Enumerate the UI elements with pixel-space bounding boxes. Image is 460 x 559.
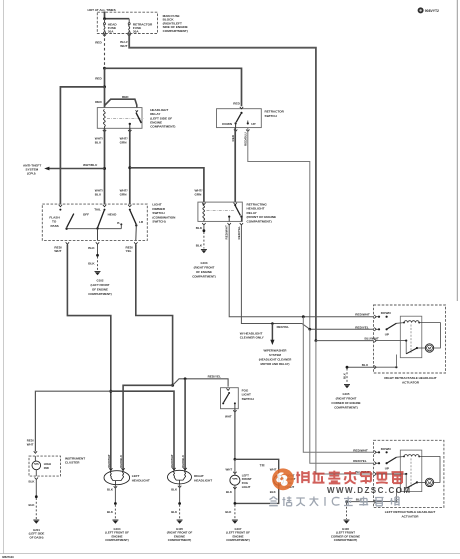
fog switch blade <box>224 394 229 403</box>
headlight relay coil <box>103 110 105 129</box>
connector chevron light switch O2 <box>96 242 99 244</box>
svg-text:RED/YEL: RED/YEL <box>355 325 369 329</box>
motor M right actuator <box>425 344 433 352</box>
label G105 (RIGHT FRONT CORNER OF ENGINE COMPARTMENT) <box>331 392 360 410</box>
connector chevron head fuse out <box>103 34 106 36</box>
label G105 (RIGHT FRONT OF ENGINE COMPARTMENT) headlight <box>167 527 193 542</box>
svg-text:SWITCH: SWITCH <box>265 114 278 118</box>
label LEFT HEADLIGHT <box>132 474 150 482</box>
svg-text:ACTUATOR: ACTUATOR <box>402 380 420 384</box>
svg-text:G102: G102 <box>96 278 103 282</box>
junction bus at head fuse <box>103 17 106 20</box>
label INSTRUMENT CLUSTER <box>65 457 85 465</box>
svg-text:WHT/BLU: WHT/BLU <box>83 163 98 167</box>
wire light switch common bar <box>67 228 122 230</box>
svg-text:WHT: WHT <box>27 442 34 446</box>
label G102 (LEFT FRONT OF ENGINE COMPARTMENT) <box>88 278 112 296</box>
headlight relay switch blade <box>136 113 141 123</box>
connector chevron left fog light in <box>233 472 236 474</box>
wire RED branch left down to light switch <box>60 87 104 204</box>
left retractable headlight actuator dashed box <box>374 440 444 507</box>
left actuator link dashed <box>410 458 412 487</box>
svg-text:WHT: WHT <box>226 467 233 471</box>
junction cleaner tap <box>271 322 274 325</box>
svg-text:G103: G103 <box>200 261 207 265</box>
right actuator UP contact and blade <box>376 323 396 330</box>
label LIGHT DIMMER SWITCH (COMBINATION SWITCH) <box>152 203 176 224</box>
retractor switch UP contact <box>247 121 249 125</box>
junction fog ground split <box>234 502 237 505</box>
junction WHT/BLU anti-theft tap <box>103 167 106 170</box>
svg-text:TAIL: TAIL <box>94 208 101 212</box>
svg-text:OFF: OFF <box>83 212 89 216</box>
connector chevron left actuator T4 <box>374 500 376 503</box>
headlight relay lower contact stub <box>129 124 131 128</box>
headlight relay switch contact top <box>136 110 138 112</box>
ground G106 symbol <box>344 520 350 524</box>
headlight relay switch lower contact <box>129 123 131 125</box>
label G107 (LEFT FRONT OF ENGINE COMPARTMENT) <box>226 527 250 542</box>
svg-text:WHT: WHT <box>270 467 277 471</box>
svg-text:BLK: BLK <box>171 510 178 514</box>
svg-text:COMPARTMENT): COMPARTMENT) <box>247 219 272 223</box>
svg-text:TM: TM <box>260 464 265 468</box>
retracting relay lower contact right <box>240 216 242 218</box>
svg-text:COMPARTMENT): COMPARTMENT) <box>150 125 175 129</box>
fog switch contact <box>228 392 230 394</box>
wire RED/BLU retractor switch UP to junction <box>248 128 310 330</box>
svg-text:BLK: BLK <box>88 246 95 250</box>
right actuator link dashed <box>410 325 412 353</box>
connector chevron relay out right <box>128 130 131 132</box>
svg-text:SWITCH: SWITCH <box>242 397 255 401</box>
wire headlight cleaner branch arrow <box>270 324 274 346</box>
svg-text:SWITCH): SWITCH) <box>152 220 165 224</box>
fuse RETRACTOR FUSE 30A <box>128 23 130 34</box>
connector chevron retractor out down <box>234 130 237 132</box>
svg-text:BLK: BLK <box>29 479 36 483</box>
connector chevron right actuator T4 <box>374 366 376 369</box>
stub DOWN contact to box edge <box>235 123 237 127</box>
svg-text:RED/WHT: RED/WHT <box>225 225 229 240</box>
connector chevron left fog light out <box>233 487 236 489</box>
svg-text:WHT: WHT <box>54 249 61 253</box>
left actuator UP contact and blade <box>376 457 396 464</box>
junction main blade pivot <box>96 227 98 229</box>
wire BLK right headlight <box>179 484 181 503</box>
connector chevron light switch T1 <box>59 205 62 207</box>
svg-text:IND: IND <box>44 466 49 470</box>
light switch main blade <box>98 210 105 227</box>
left actuator motor assembly box <box>400 450 422 492</box>
svg-text:SYSTEM: SYSTEM <box>269 353 281 357</box>
wire blade tip to coil <box>396 322 404 325</box>
stub lower contact right <box>240 217 242 222</box>
label WHT/GRN at retracting relay <box>195 189 203 197</box>
svg-text:COMPARTMENT): COMPARTMENT) <box>226 538 250 542</box>
wire RED/WHT branch to instrument cluster <box>35 391 110 451</box>
light switch flash blade <box>67 214 74 228</box>
svg-text:COMPARTMENT): COMPARTMENT) <box>88 292 112 296</box>
wire BLK left actuator to ground branch <box>347 501 377 503</box>
svg-text:BLK: BLK <box>29 503 36 507</box>
main fuse block dashed box <box>97 12 157 33</box>
connector chevron retracting relay in coil <box>202 203 205 205</box>
junction BLK cluster splice <box>35 495 38 498</box>
junction BLK splice <box>96 254 99 257</box>
left headlight bulb <box>104 471 130 485</box>
wire RED/YEL relay out toward actuator UP <box>241 225 373 329</box>
label BLU/WHT below retractor fuse <box>120 40 127 48</box>
ground G104 symbol <box>112 520 118 524</box>
junction right headlight low tap <box>184 377 187 380</box>
svg-text:BLK: BLK <box>88 262 95 266</box>
junction BLK splice left headlight <box>114 502 117 505</box>
svg-text:BLK: BLK <box>107 510 114 514</box>
wire fog feed diagonal <box>173 379 229 387</box>
svg-text:GRN: GRN <box>120 141 128 145</box>
retracting relay lower contact left <box>228 216 230 218</box>
label WHT/GRN lower left <box>120 189 128 197</box>
wire low beam branch to right headlight <box>184 379 186 471</box>
svg-text:YEL: YEL <box>126 249 132 253</box>
connector chevron retractor out up <box>246 130 249 132</box>
connector chevron right headlight out <box>178 486 181 488</box>
headlight relay box <box>97 108 142 129</box>
svg-text:OF ENGINE: OF ENGINE <box>92 287 108 291</box>
label G201 (LEFT SIDE OF DASH) <box>29 528 45 540</box>
right retractable headlight actuator dashed box <box>374 305 446 373</box>
connector chevron retracting relay in switch <box>234 203 237 205</box>
junction dot2 wire B <box>308 328 311 331</box>
svg-text:WIPER/WASHER: WIPER/WASHER <box>264 349 288 353</box>
label MAIN FUSE BLOCK (RIGHT/LEFT SIDE OF ENGINE COMPARTMENT) <box>163 14 188 33</box>
label W/ HEADLIGHT CLEANER ONLY <box>240 331 265 339</box>
label RED/WHT below O1 <box>54 245 62 253</box>
connector chevron cluster out <box>35 478 38 480</box>
label WIPER/WASHER SYSTEM (HEADLIGHT CLEANER MOTOR AND RELAY) <box>259 349 293 367</box>
label RED/YEL below O3 <box>126 245 134 253</box>
svg-text:RED: RED <box>95 77 102 81</box>
svg-text:M: M <box>428 481 431 485</box>
wire RED/YEL low beam feed <box>136 245 173 386</box>
svg-text:RED/WHT: RED/WHT <box>107 454 111 468</box>
svg-text:COMPARTMENT): COMPARTMENT) <box>192 275 216 279</box>
junction RED at y87 <box>103 85 106 88</box>
junction BLK splice retracting relay <box>203 229 206 232</box>
svg-text:M: M <box>428 347 431 351</box>
ground G102 symbol <box>95 272 101 276</box>
svg-text:(CPU): (CPU) <box>27 172 36 176</box>
label RED/WHT at cluster <box>27 439 34 447</box>
wire RED down to next junction <box>104 68 106 87</box>
fog light switch box <box>221 388 239 409</box>
left actuator DOWN contacts <box>376 451 388 453</box>
retracting relay switch contact <box>234 204 236 206</box>
wire WHT fog switch to fog lights <box>234 409 236 460</box>
connector chevron left headlight out <box>114 486 117 488</box>
wire anti-theft arrow <box>44 167 104 171</box>
svg-text:BLK: BLK <box>196 244 203 248</box>
svg-text:DOWN: DOWN <box>381 311 392 315</box>
svg-text:OF ENGINE: OF ENGINE <box>196 270 212 274</box>
wire RED retractor switch to retracting relay <box>234 128 236 203</box>
ground G105 symbol <box>344 385 350 389</box>
ground G201 symbol <box>33 520 39 524</box>
wire dimmer pivot to output <box>135 225 138 240</box>
retracting relay switch blade <box>235 206 240 215</box>
connector chevron retracting relay out2 <box>228 223 231 225</box>
svg-text:HEADLIGHT: HEADLIGHT <box>132 478 150 482</box>
svg-text:BLK: BLK <box>270 490 277 494</box>
junction RED at y68 <box>103 67 106 70</box>
label LEFT RETRACTABLE HEADLIGHT ACTUATOR <box>385 510 436 519</box>
wire blade tip to coil left actuator <box>396 456 404 459</box>
right actuator motor switch blade <box>406 347 425 354</box>
wire BLK cluster <box>35 480 37 496</box>
motor M left actuator <box>425 478 433 486</box>
wire RED/WHT branch to right headlight <box>111 391 174 470</box>
wire RED jumper arc over relay <box>105 99 137 108</box>
headlight relay link dash-dot <box>107 117 144 119</box>
svg-text:HEADLIGHT: HEADLIGHT <box>194 478 212 482</box>
connector chevron light switch T3 <box>128 205 131 207</box>
svg-text:BLU/WHT: BLU/WHT <box>365 337 379 341</box>
wire RED dashed below head fuse <box>104 34 106 68</box>
svg-text:LIGHT: LIGHT <box>242 485 251 489</box>
label G106 (LEFT FRONT CORNER OF ENGINE COMPARTMENT) <box>331 527 360 542</box>
svg-text:RED: RED <box>122 95 129 99</box>
ground G105 symbol right headlight <box>177 520 183 524</box>
svg-text:BLK: BLK <box>107 488 114 492</box>
svg-text:WWW.DZSC.COM: WWW.DZSC.COM <box>327 486 412 495</box>
retractor switch DOWN contact <box>235 122 237 124</box>
label HEAD FUSE 30A <box>108 22 118 33</box>
svg-text:UP: UP <box>385 466 389 470</box>
junction BLK splice right headlight <box>178 502 181 505</box>
connector chevron right headlight T2 <box>183 468 186 470</box>
connector chevron left actuator T3 <box>374 472 376 475</box>
svg-text:COMPARTMENT): COMPARTMENT) <box>168 538 192 542</box>
svg-text:(HEADLIGHT CLEANER: (HEADLIGHT CLEANER <box>259 358 293 362</box>
high beam indicator bulb <box>32 456 41 476</box>
connector chevron left headlight T1 <box>109 468 112 470</box>
svg-text:RED/YEL: RED/YEL <box>208 374 222 378</box>
connector chevron retracting relay out1 <box>202 223 205 225</box>
label RIGHT HEADLIGHT <box>194 474 212 482</box>
connector chevron right actuator T3 <box>374 339 376 342</box>
retracting relay link dash-dot <box>207 210 235 212</box>
left actuator coil to motor wire <box>419 457 440 483</box>
left actuator coil <box>403 455 420 458</box>
connector chevron left actuator T2 <box>374 462 376 465</box>
svg-text:G105: G105 <box>342 392 349 396</box>
connector chevron fog switch in <box>226 388 229 390</box>
svg-text:BLK: BLK <box>225 510 232 514</box>
svg-text:38627b09: 38627b09 <box>2 555 14 559</box>
ground G107 symbol <box>232 520 238 524</box>
wire BLK dashed to ground G103 <box>203 232 205 249</box>
wire BLK left headlight <box>114 485 116 503</box>
label RIGHT FRONT FOG LIGHT <box>286 473 296 488</box>
wire feed into fuse block <box>104 12 106 19</box>
logo icon top right <box>418 7 424 13</box>
retracting headlight relay box <box>198 202 242 221</box>
label HEADLIGHT RELAY (LEFT SIDE OF ENGINE COMPARTMENT) <box>150 108 175 129</box>
wire main pivot to output <box>97 229 99 241</box>
svg-text:DOWN: DOWN <box>381 447 392 451</box>
fog switch out contact <box>234 402 236 408</box>
wire BLU/WHT down to left actuator <box>316 341 374 474</box>
svg-text:RED: RED <box>231 134 235 141</box>
svg-text:HEAD: HEAD <box>108 212 118 216</box>
connector chevron retractor fuse out <box>128 34 131 36</box>
svg-text:MOTOR AND RELAY): MOTOR AND RELAY) <box>261 362 290 366</box>
watermark slogan text (vector CJK + IC) <box>269 497 399 507</box>
svg-text:GRN: GRN <box>120 193 128 197</box>
svg-text:WHT: WHT <box>120 44 127 48</box>
stub contact B <box>120 224 122 228</box>
connector chevron right headlight T1 <box>172 468 175 470</box>
connector chevron light switch O1 <box>66 242 69 244</box>
svg-text:WHT: WHT <box>225 415 232 419</box>
fuse HEAD FUSE 30A <box>104 23 106 34</box>
wire BLK dashed to ground G106 <box>346 503 348 519</box>
svg-text:(LEFT FRONT: (LEFT FRONT <box>91 283 110 287</box>
label RIGHT RETRACTABLE HEADLIGHT ACTUATOR <box>384 376 436 385</box>
svg-text:COMPARTMENT): COMPARTMENT) <box>163 29 188 33</box>
wire WHT/GRN branch to retracting relay <box>130 168 204 202</box>
label FLASH TO PASS <box>49 216 60 228</box>
left fog light bulb <box>230 459 240 503</box>
svg-text:908VYT2: 908VYT2 <box>425 9 439 13</box>
junction BLU splice <box>346 366 349 369</box>
label G104 (LEFT FRONT OF ENGINE COMPARTMENT) <box>105 527 129 542</box>
svg-text:COMPARTMENT): COMPARTMENT) <box>334 538 358 542</box>
left actuator motor switch blade <box>406 481 425 488</box>
svg-text:COMPARTMENT): COMPARTMENT) <box>105 538 129 542</box>
wire BLK dashed to ground <box>97 257 99 271</box>
label ANTI-THEFT SYSTEM (CPU) <box>23 163 41 175</box>
wire fog feed loop to right fog light <box>235 459 279 503</box>
label RETRACTOR SWITCH <box>265 110 285 118</box>
label HIGH BEAM IND <box>44 462 51 470</box>
svg-text:30A: 30A <box>108 30 114 34</box>
right actuator motor assembly box <box>400 316 422 358</box>
svg-text:BLK: BLK <box>343 372 347 379</box>
label WHT/BLU upper <box>95 137 103 145</box>
retractor switch blade <box>236 114 241 122</box>
label LEFT FRONT FOG LIGHT <box>242 473 252 488</box>
connector chevron right actuator T1 <box>374 315 376 318</box>
svg-text:HOT AT ALL TIMES: HOT AT ALL TIMES <box>88 8 116 12</box>
connector chevron light switch T2 <box>103 205 106 207</box>
right actuator DOWN contacts <box>376 316 388 318</box>
junction RED/YEL low beam tap <box>171 384 174 387</box>
instrument cluster connector chevron <box>34 451 37 453</box>
light switch dimmer blade <box>130 210 136 224</box>
instrument cluster dashed box <box>29 456 61 476</box>
light switch main contact <box>104 209 106 211</box>
connector chevron retractor switch in <box>240 107 243 109</box>
junction dimmer pivot <box>135 224 137 226</box>
svg-text:CORNER OF ENGINE: CORNER OF ENGINE <box>331 401 360 405</box>
retractor switch common contact <box>240 112 242 114</box>
wire BLK retracting relay <box>203 225 205 230</box>
svg-text:OF DASH): OF DASH) <box>30 535 44 539</box>
svg-text:RED/YEL: RED/YEL <box>237 226 241 240</box>
wire BLU/WHT to right actuator <box>316 340 374 342</box>
svg-text:RED/BLK: RED/BLK <box>181 454 185 468</box>
svg-text:BLK: BLK <box>196 226 203 230</box>
svg-text:BLK: BLK <box>226 490 233 494</box>
label WHT/BLU lower <box>95 189 103 197</box>
light switch dimmer contact <box>129 209 131 211</box>
svg-text:CLEANER ONLY: CLEANER ONLY <box>240 336 265 340</box>
svg-text:PASS: PASS <box>51 224 59 228</box>
wire low beam branch to left headlight <box>123 385 173 471</box>
svg-text:RED: RED <box>95 41 102 45</box>
wire RED branch to retractor switch <box>105 68 242 106</box>
left actuator T4 internal wire <box>376 489 397 503</box>
wire BLK dashed to ground G201 <box>35 498 37 519</box>
junction fog feed split <box>234 458 237 461</box>
svg-text:RED/WHT: RED/WHT <box>355 313 370 317</box>
svg-text:UP: UP <box>251 122 255 126</box>
wire WHT/GRN relay to light switch <box>129 128 131 204</box>
wire RED into headlight relay <box>104 87 106 108</box>
right actuator common contact <box>376 340 407 354</box>
right actuator T4 internal wire <box>376 355 397 369</box>
svg-text:BLU: BLU <box>95 193 102 197</box>
label WHT/GRN upper <box>120 137 128 145</box>
wire BLU/WHT from retractor fuse to right side <box>129 34 316 341</box>
wire WHT/BLU relay to light switch <box>104 128 106 204</box>
svg-text:RED/YEL: RED/YEL <box>277 325 290 329</box>
light switch contact B <box>120 223 122 225</box>
label G103 (RIGHT FRONT OF ENGINE COMPARTMENT) <box>192 261 216 279</box>
connector chevron light switch O3 <box>134 242 137 244</box>
wire RED/YEL down to left actuator <box>310 329 374 463</box>
wire RED/WHT relay out to right actuator DOWN <box>229 225 373 317</box>
svg-text:RED: RED <box>95 100 102 104</box>
connector chevron left headlight T2 <box>121 468 124 470</box>
retractor switch box <box>217 109 262 128</box>
svg-text:ACTUATOR: ACTUATOR <box>401 515 419 519</box>
svg-text:LEFT RETRACTABLE HEADLIGHT: LEFT RETRACTABLE HEADLIGHT <box>385 510 436 514</box>
junction dot1 wire A <box>302 315 305 318</box>
connector chevron fog switch out <box>233 410 236 412</box>
right actuator coil to motor wire <box>419 323 440 348</box>
label RETRACTING HEADLIGHT RELAY (FRONT OF ENGINE COMPARTMENT) <box>247 203 277 224</box>
svg-text:RED/YEL: RED/YEL <box>353 459 367 463</box>
junction dot3 BLU/WHT tap <box>315 339 318 342</box>
right actuator coil <box>403 321 420 324</box>
wire RED/WHT down to left actuator <box>303 317 373 453</box>
light switch flash contact <box>59 209 61 211</box>
connector chevron retracting relay out3 <box>240 223 243 225</box>
svg-text:30A: 30A <box>133 30 139 34</box>
svg-text:RIGHT RETRACTABLE HEADLIGHT: RIGHT RETRACTABLE HEADLIGHT <box>384 376 436 380</box>
wire RED bus inside fuse block <box>105 18 130 20</box>
svg-text:RED/BLK: RED/BLK <box>119 454 123 468</box>
connector chevron right actuator T2 <box>374 328 376 331</box>
connector chevron left actuator T1 <box>374 451 376 454</box>
svg-text:GRN: GRN <box>195 193 203 197</box>
wire bus drop to head fuse <box>104 19 106 23</box>
svg-text:BLU: BLU <box>95 141 102 145</box>
light switch dashed box <box>42 204 147 240</box>
